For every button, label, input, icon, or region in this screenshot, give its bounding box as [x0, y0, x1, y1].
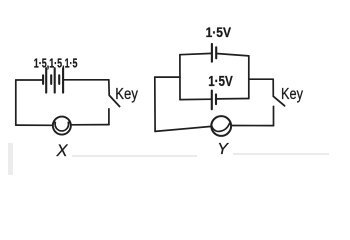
lamp X outer circle — [53, 117, 71, 135]
key switch S1 upper contact — [108, 80, 110, 96]
svg-text:1·5V: 1·5V — [206, 25, 231, 40]
key switch S2 lower contact — [273, 106, 275, 125]
wire X left side — [15, 80, 17, 125]
wire Y bottom-right segment — [232, 125, 274, 127]
wire X bottom-right segment — [72, 124, 109, 126]
battery B1 long plate 2 — [54, 68, 56, 92]
cell C1 (top 1.5V) long plate — [211, 44, 213, 62]
battery B1 short plate 3 — [58, 75, 60, 84]
svg-text:Key: Key — [115, 86, 138, 103]
key switch S1 blade — [110, 96, 120, 107]
key switch S1 lower contact — [108, 109, 110, 125]
wire Y rect top-left segment — [180, 53, 212, 54]
cell C2 short plate — [215, 94, 217, 104]
key switch S2 blade — [274, 97, 285, 106]
battery B1 (three 1.5V cells) short plate 1 — [42, 75, 44, 84]
wire X bottom-left segment — [16, 124, 52, 126]
wire X top-left segment — [16, 79, 43, 81]
wire X top-right segment — [63, 79, 109, 81]
wire Y right tap — [249, 78, 273, 80]
wire Y rect bottom-left segment — [180, 98, 212, 100]
key switch S2 upper contact — [272, 79, 274, 96]
wire Y outer left side — [154, 77, 156, 131]
wire Y rect bottom-right segment — [216, 98, 249, 100]
lamp X filament loop — [53, 122, 71, 131]
lamp Y filament loop — [211, 123, 229, 131]
svg-text:1·5,1·5,1·5: 1·5,1·5,1·5 — [34, 55, 78, 70]
svg-text:X: X — [56, 142, 69, 160]
svg-text:1·5V: 1·5V — [208, 73, 233, 90]
faint scan streak bottom middle — [72, 155, 197, 157]
wire Y rect top-right segment — [216, 54, 249, 56]
svg-text:Key: Key — [281, 86, 303, 103]
cell C1 short plate — [215, 47, 217, 58]
wire Y bottom-left segment — [155, 126, 211, 131]
battery B1 long plate 1 — [45, 68, 47, 92]
faint scan streak left bottom — [8, 143, 13, 175]
battery B1 long plate 3 — [62, 68, 64, 92]
wire Y rect right side — [248, 56, 250, 99]
lamp Y outer circle — [211, 116, 231, 136]
faint scan streak bottom right — [233, 153, 329, 155]
wire Y left tap — [155, 76, 180, 78]
battery B1 short plate 2 — [50, 75, 52, 84]
wire Y rect left side — [179, 55, 181, 100]
cell C2 (lower 1.5V) long plate — [211, 91, 213, 110]
svg-text:Y: Y — [217, 141, 229, 158]
